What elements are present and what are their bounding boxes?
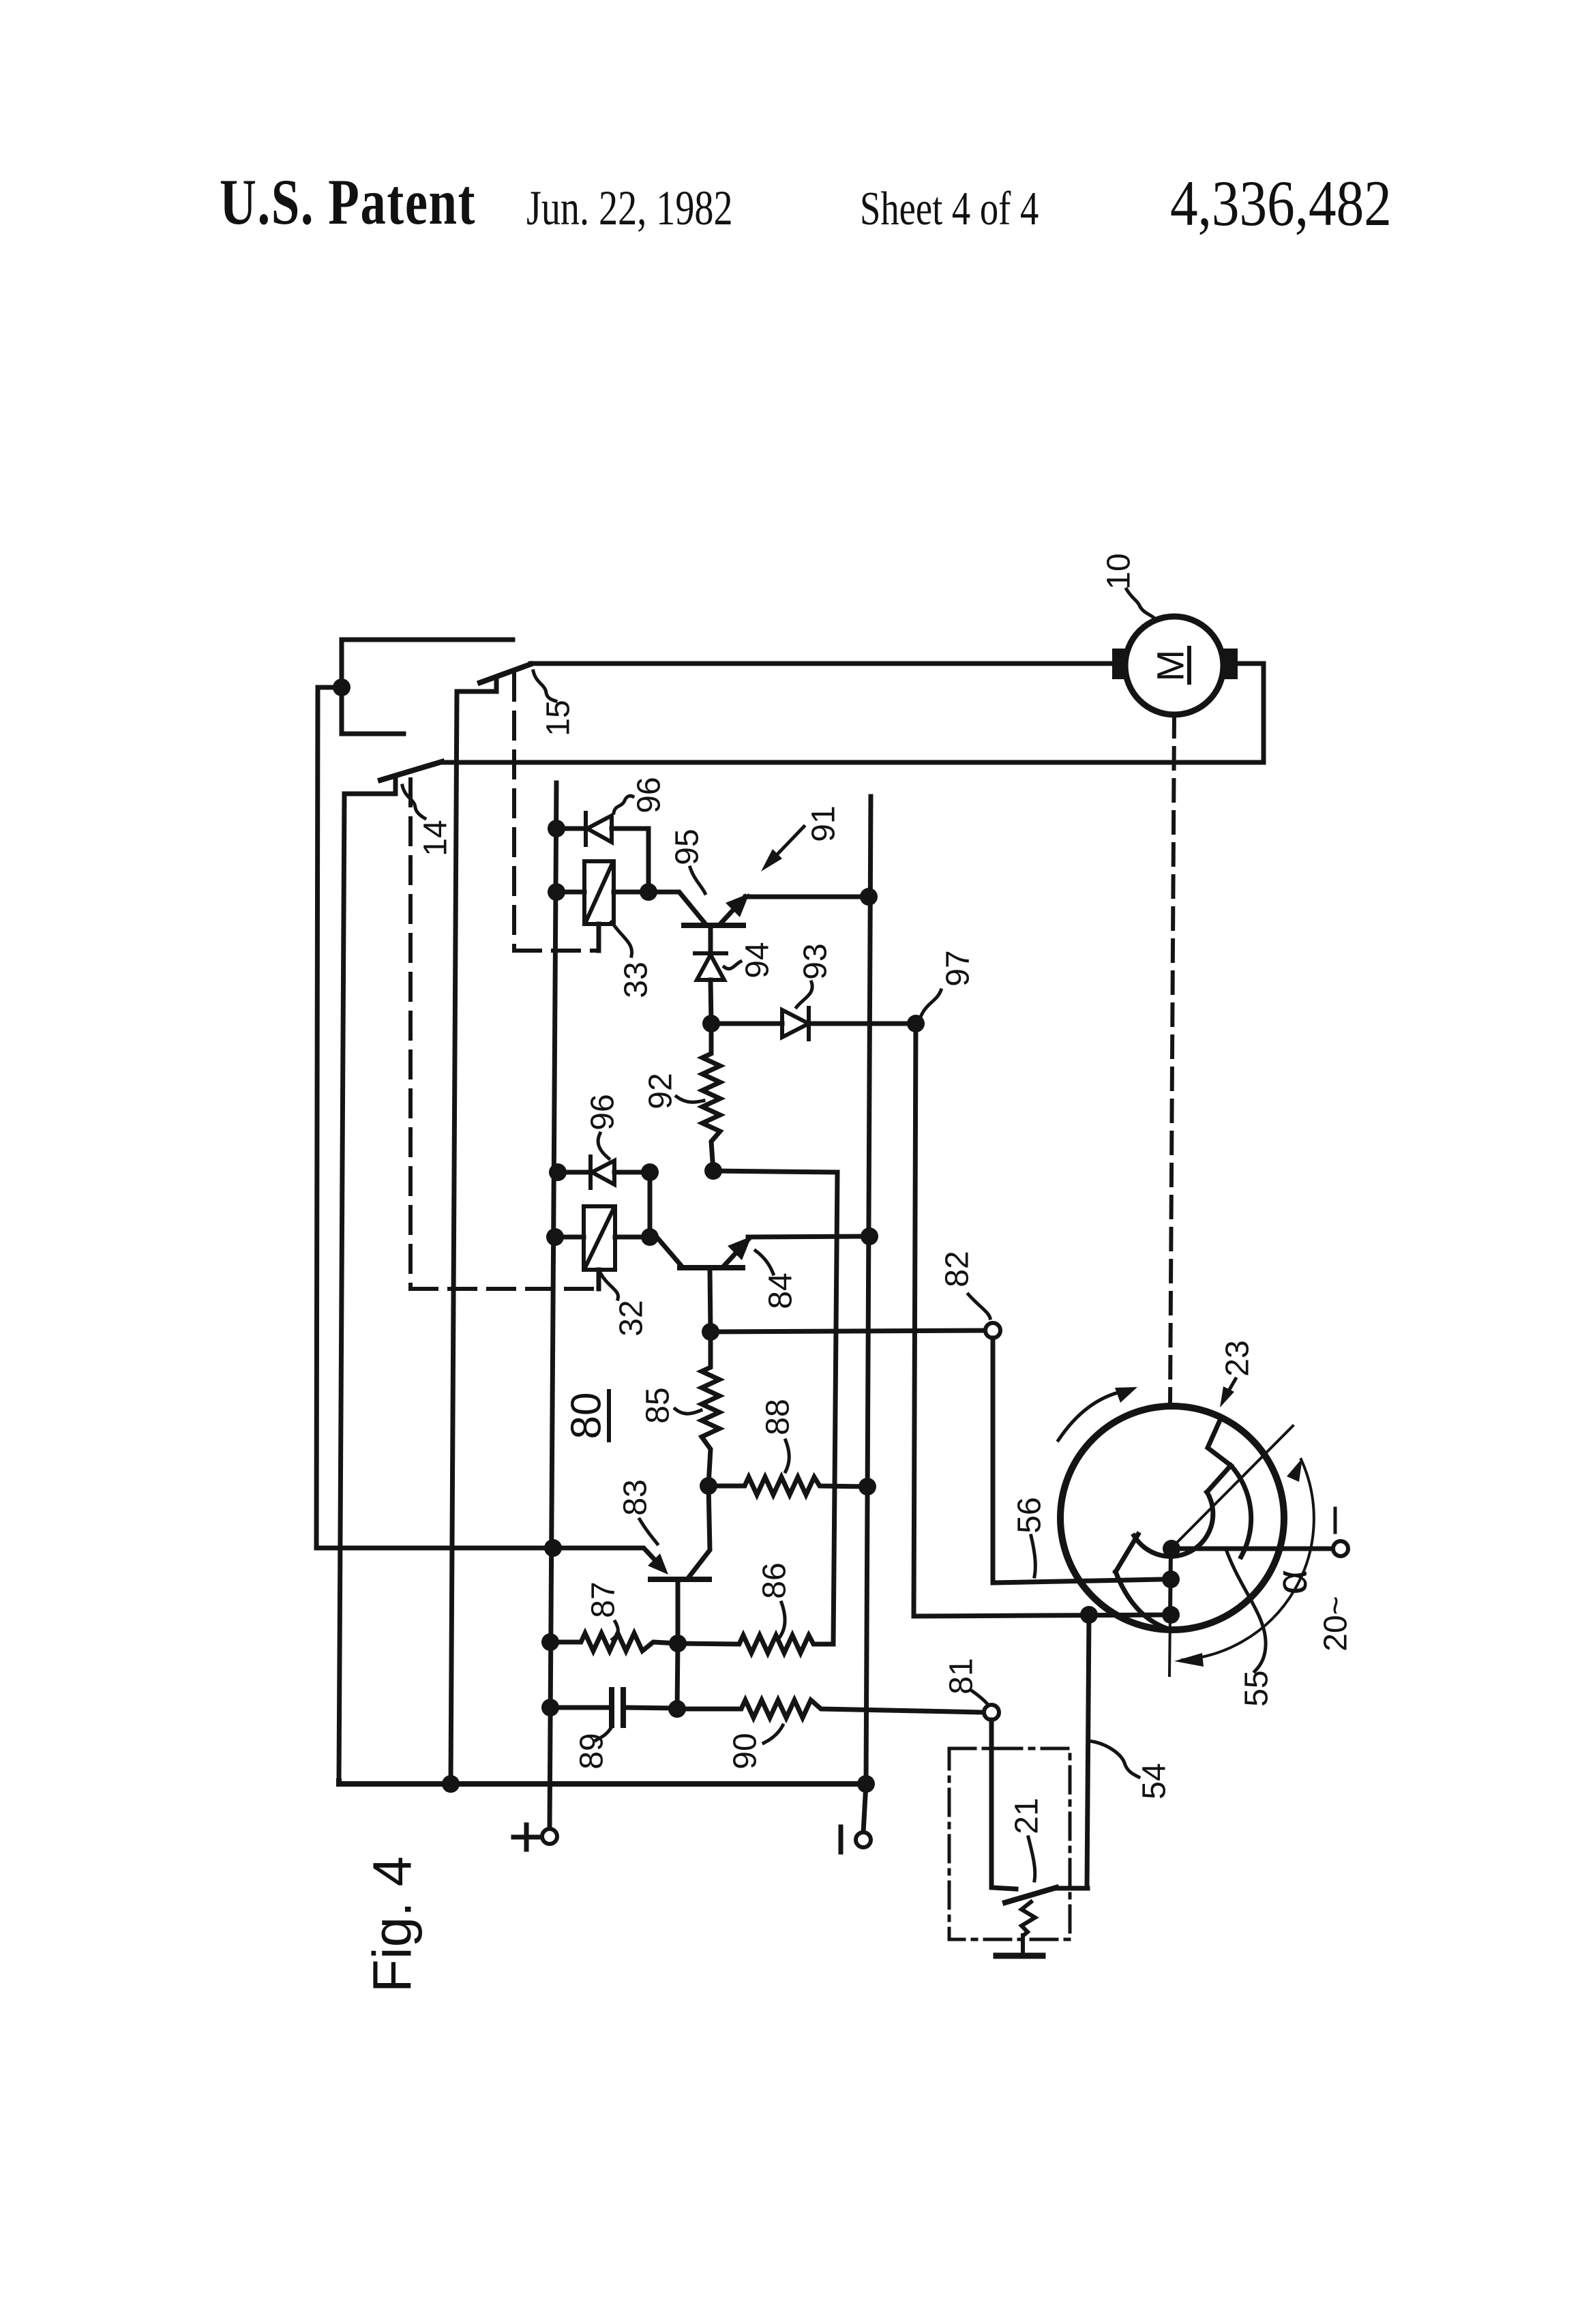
wire Q95 emitter to common rail bbox=[745, 895, 869, 899]
resistor R92 bbox=[702, 1024, 720, 1171]
switch 21 blade bbox=[1005, 1888, 1056, 1903]
transistor Q95 emitter bbox=[721, 897, 745, 923]
resistor R87 bbox=[550, 1633, 678, 1651]
label 32 bbox=[614, 1300, 650, 1336]
transistor Q84 collector bbox=[650, 1237, 681, 1266]
node diode 96a anode bbox=[548, 820, 565, 837]
wire 56 from terminal 82 down to cam contact bbox=[993, 1338, 1163, 1583]
svg-text:Fig. 4: Fig. 4 bbox=[362, 1856, 423, 1993]
svg-text:81: 81 bbox=[944, 1658, 980, 1694]
wire 54 bbox=[1087, 1615, 1089, 1888]
node Q84 emitter on common rail bbox=[861, 1227, 878, 1245]
label 97 bbox=[940, 950, 976, 986]
node diode 96b cathode / wire to relay 32 right pin bbox=[641, 1163, 659, 1181]
svg-text:83: 83 bbox=[618, 1479, 654, 1515]
node R85 bottom / R88 left / Q83 collector bbox=[700, 1477, 717, 1495]
label 89 bbox=[574, 1733, 610, 1769]
diode 96 (lower, across relay 32) bbox=[558, 1170, 590, 1175]
label 55 bbox=[1239, 1670, 1275, 1706]
wire wiper to terminal 20 bbox=[1171, 1547, 1333, 1551]
dashed shaft line of motor to cam disc bbox=[1170, 716, 1174, 1403]
svg-text:97: 97 bbox=[940, 950, 976, 986]
terminal 20 bbox=[1333, 1541, 1348, 1556]
relay coil 32 bbox=[584, 1206, 615, 1270]
wire bus from switch 14 down to bottom rail bbox=[339, 794, 344, 1781]
motor M 10 bbox=[1125, 616, 1223, 715]
transistor Q95 collector bbox=[648, 892, 704, 923]
svg-text:84: 84 bbox=[763, 1272, 799, 1309]
alpha dimension radius line bbox=[1172, 1426, 1293, 1547]
svg-text:32: 32 bbox=[614, 1300, 650, 1336]
svg-text:95: 95 bbox=[670, 829, 706, 865]
diode 96 (upper, across relay 33) bbox=[556, 826, 585, 831]
label 84 bbox=[763, 1272, 799, 1309]
svg-text:85: 85 bbox=[640, 1387, 676, 1423]
label 33 bbox=[618, 962, 655, 998]
wire left bus (to emitter row of Q83) bbox=[316, 687, 553, 1548]
label 95 bbox=[670, 829, 706, 865]
cam inner arc bbox=[1134, 1492, 1213, 1556]
relay coil 33 bbox=[584, 861, 614, 924]
node diode 94 / resistor 92 / diode 93 bbox=[702, 1015, 720, 1032]
label 90 bbox=[728, 1733, 764, 1769]
node junction top-left bbox=[333, 679, 350, 696]
svg-text:21: 21 bbox=[1009, 1798, 1045, 1834]
transistor Q83 collector bbox=[689, 1486, 710, 1577]
svg-text:92: 92 bbox=[643, 1073, 679, 1109]
reference tick near terminal 20 bbox=[1334, 1508, 1337, 1532]
svg-text:56: 56 bbox=[1012, 1497, 1048, 1533]
capacitor C89 bbox=[550, 1705, 608, 1710]
label 10 bbox=[1101, 553, 1137, 589]
node relay 32 left pin bbox=[546, 1228, 564, 1246]
svg-text:90: 90 bbox=[728, 1733, 764, 1769]
diode 93 bbox=[711, 1022, 782, 1026]
label 23 with arrow bbox=[1220, 1340, 1256, 1376]
dash-dot enclosure of switch 21 bbox=[949, 1748, 1070, 1939]
rotation arrow bbox=[1058, 1391, 1124, 1440]
label 20 with tilde bbox=[1318, 1596, 1354, 1651]
node resistor 92 bottom bbox=[704, 1162, 722, 1180]
svg-text:96: 96 bbox=[585, 1094, 621, 1130]
cam spiral lower left bbox=[1116, 1572, 1169, 1629]
wire common emitter rail (vertical) bbox=[866, 796, 871, 1784]
label 80 with underline bbox=[563, 1392, 610, 1440]
label 88 bbox=[760, 1399, 796, 1435]
transistor Q83 base bar bbox=[651, 1577, 709, 1582]
cam disc 23 outer circle bbox=[1060, 1406, 1284, 1630]
alpha dimension arc bbox=[1182, 1459, 1314, 1660]
node Q95 emitter on common rail bbox=[860, 888, 878, 906]
svg-text:20~: 20~ bbox=[1318, 1596, 1354, 1651]
label 15 bbox=[541, 700, 577, 736]
dashed mechanical link switch 15 to relay 33 bbox=[514, 674, 599, 951]
node relay 32 right pin bbox=[641, 1228, 659, 1246]
svg-text:15: 15 bbox=[541, 700, 577, 736]
node 97 junction bbox=[907, 1015, 925, 1032]
label 85 bbox=[640, 1387, 676, 1423]
svg-text:87: 87 bbox=[586, 1581, 622, 1618]
label 94 bbox=[740, 942, 776, 978]
resistor R85 bbox=[702, 1332, 719, 1485]
label 81 bbox=[944, 1658, 980, 1694]
transistor Q83 emitter with arrow bbox=[553, 1548, 663, 1568]
label 87 bbox=[586, 1581, 622, 1618]
transistor Q84 base lead bbox=[710, 1270, 711, 1332]
cam step upper right bbox=[1207, 1422, 1231, 1492]
svg-text:Jun. 22, 1982: Jun. 22, 1982 bbox=[526, 180, 733, 235]
wire motor feed upper (switch 15 to motor left brush) bbox=[531, 661, 1114, 666]
node diode 96b anode bbox=[549, 1163, 567, 1181]
label Fig. 4 bbox=[362, 1856, 423, 1993]
label 54 bbox=[1137, 1763, 1173, 1799]
label 14 bbox=[418, 820, 454, 856]
label 21 bbox=[1009, 1798, 1045, 1834]
node relay 33 left pin bbox=[548, 883, 565, 901]
switch 14 bbox=[380, 762, 442, 780]
wire bus from switch 15 down to bottom rail bbox=[451, 691, 457, 1784]
svg-text:88: 88 bbox=[760, 1399, 796, 1435]
svg-text:Sheet 4 of 4: Sheet 4 of 4 bbox=[860, 182, 1039, 235]
svg-text:82: 82 bbox=[940, 1251, 976, 1287]
svg-text:14: 14 bbox=[418, 820, 454, 856]
ground bbox=[1021, 1935, 1025, 1954]
node Q84 base / terminal 82 wire bbox=[702, 1323, 719, 1341]
label 91 with arrow bbox=[806, 805, 842, 841]
svg-text:96: 96 bbox=[631, 777, 668, 813]
wire upper fixed contact of switch 14 bbox=[342, 687, 404, 734]
diode 94 bbox=[708, 925, 713, 953]
svg-text:α: α bbox=[1267, 1570, 1316, 1595]
wire bottom negative rail bbox=[339, 1781, 867, 1784]
node R87 left on + bus bbox=[541, 1633, 559, 1651]
cam step left bbox=[1116, 1534, 1138, 1572]
terminal plus bbox=[542, 1829, 557, 1844]
wire positive supply bus of circuit 80 bbox=[550, 783, 556, 1829]
svg-text:U.S. Patent: U.S. Patent bbox=[220, 167, 476, 239]
resistor R88 bbox=[708, 1477, 867, 1495]
wire terminal 81 down into switch 21 bbox=[991, 1720, 1016, 1889]
header bbox=[220, 167, 1392, 240]
terminal minus bbox=[863, 1784, 866, 1832]
label 86 bbox=[757, 1562, 793, 1598]
svg-text:89: 89 bbox=[574, 1733, 610, 1769]
svg-text:33: 33 bbox=[618, 962, 655, 998]
node cap 89 / R90 / Q83 base junction bbox=[668, 1700, 686, 1718]
wire 97 from junction down and right to cam contact bbox=[914, 1024, 1170, 1616]
transistor Q83 base lead bbox=[676, 1581, 681, 1643]
wiper contact column bbox=[1170, 1549, 1171, 1615]
svg-text:80: 80 bbox=[563, 1392, 610, 1440]
node cam contact center bbox=[1163, 1540, 1180, 1558]
node rail / common emitter rail / minus stub bbox=[857, 1775, 875, 1793]
switch 21 contact spring bbox=[1021, 1902, 1035, 1935]
svg-text:86: 86 bbox=[757, 1562, 793, 1598]
node relay 33 right pin bbox=[640, 883, 657, 901]
resistor R86 bbox=[678, 1635, 833, 1653]
label 96 lower bbox=[585, 1094, 621, 1130]
wire from R92 bottom to feedback branch corner bbox=[713, 1171, 837, 1644]
transistor Q84 emitter bbox=[724, 1240, 748, 1266]
svg-text:55: 55 bbox=[1239, 1670, 1275, 1706]
wire upper fixed contact of switch 15 bbox=[342, 640, 513, 687]
node wire 54 tap bbox=[1080, 1606, 1098, 1624]
terminal 82 bbox=[985, 1323, 1000, 1338]
node capacitor 89 left on + bus bbox=[541, 1699, 559, 1716]
node cam contact 56 bbox=[1162, 1570, 1180, 1588]
svg-text:23: 23 bbox=[1220, 1340, 1256, 1376]
wire to terminal 82 bbox=[711, 1330, 986, 1332]
cam middle arc right bbox=[1231, 1465, 1251, 1557]
resistor R90 and wire to terminal 81 bbox=[677, 1700, 984, 1718]
label 96 upper bbox=[631, 777, 668, 813]
switch 15 bbox=[480, 664, 531, 683]
wire switch 21 fixed side to wire 54 bbox=[1056, 1886, 1088, 1891]
svg-text:4,336,482: 4,336,482 bbox=[1170, 168, 1392, 239]
label 56 bbox=[1012, 1497, 1048, 1533]
transistor Q83 base to capacitor row bbox=[677, 1643, 678, 1709]
svg-text:91: 91 bbox=[806, 805, 842, 841]
label 83 bbox=[618, 1479, 654, 1515]
transistor Q84 base bar bbox=[680, 1265, 743, 1270]
transistor Q95 base bar bbox=[684, 923, 743, 928]
label 82 bbox=[940, 1251, 976, 1287]
wire motor return (switch 14 to motor right brush) bbox=[442, 664, 1264, 762]
node R88 right on common rail bbox=[859, 1478, 876, 1495]
node rail / left switch bus bbox=[442, 1775, 460, 1793]
dashed mechanical link switch 14 to relay 32 bbox=[411, 779, 599, 1289]
label 92 bbox=[643, 1073, 679, 1109]
node Q83 emitter row junction bbox=[544, 1539, 562, 1557]
svg-text:54: 54 bbox=[1137, 1763, 1173, 1799]
svg-text:M: M bbox=[1149, 650, 1192, 682]
wire stub to left bus bbox=[318, 685, 342, 690]
svg-text:10: 10 bbox=[1101, 553, 1137, 589]
label 93 bbox=[798, 943, 834, 979]
node cam contact 97/54 bbox=[1162, 1606, 1180, 1624]
svg-text:94: 94 bbox=[740, 942, 776, 978]
terminal 81 bbox=[984, 1705, 999, 1720]
node Q83 base / R87 / R86 bbox=[669, 1635, 687, 1652]
svg-text:93: 93 bbox=[798, 943, 834, 979]
alpha extension line below disc bbox=[1169, 1615, 1170, 1675]
label alpha bbox=[1267, 1570, 1316, 1595]
